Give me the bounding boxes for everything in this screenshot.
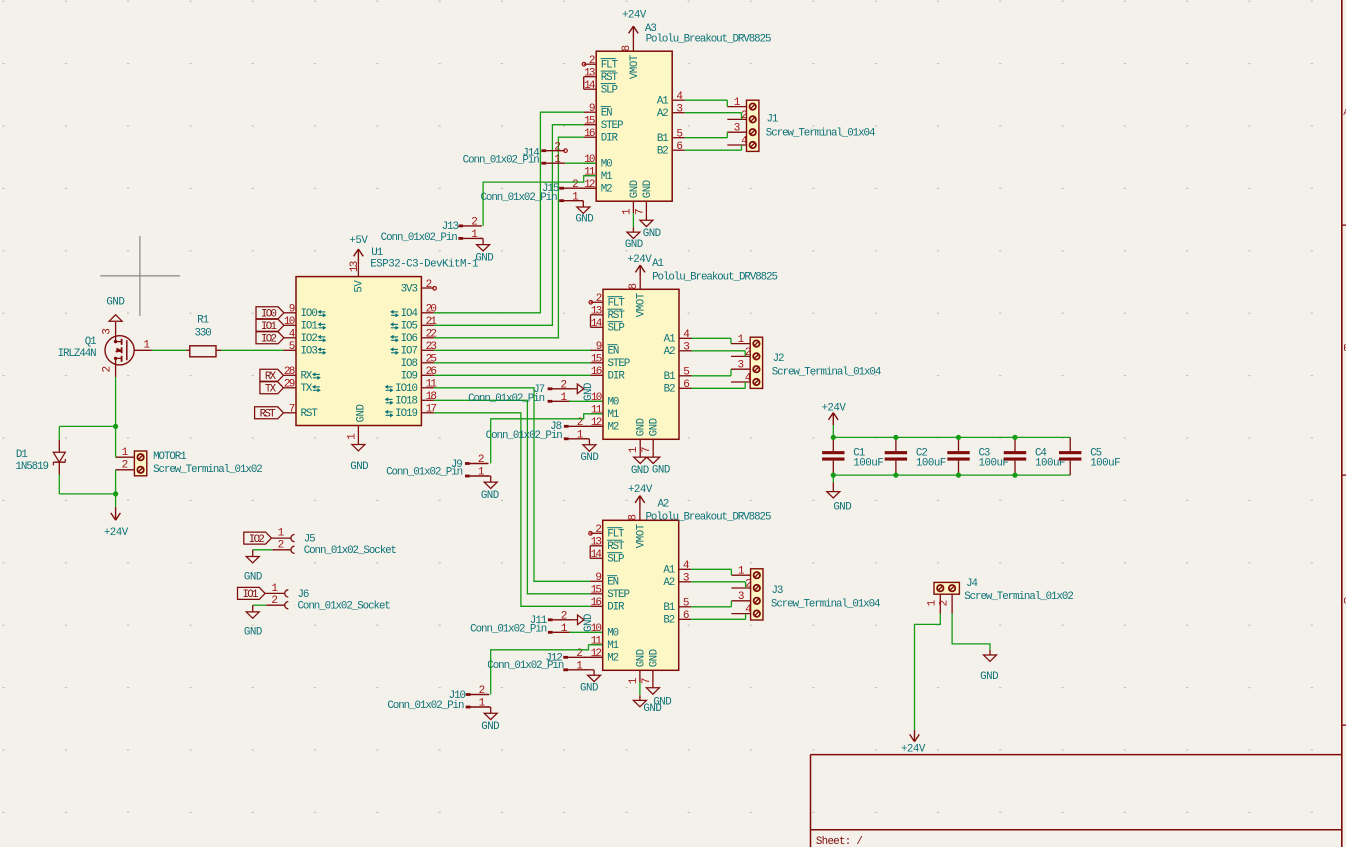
wire J12 pin2 to A2 M2 [585, 656, 603, 658]
svg-text:A1: A1 [657, 96, 668, 108]
junction [113, 491, 118, 496]
svg-text:IO3: IO3 [301, 346, 318, 358]
svg-text:23: 23 [426, 341, 437, 353]
ground (pin 7) [646, 682, 671, 708]
junction [1012, 435, 1017, 478]
connector J10 Conn_01x02_Pin [387, 685, 489, 712]
svg-text:12: 12 [591, 648, 602, 660]
svg-text:18: 18 [426, 391, 437, 403]
svg-text:M0: M0 [601, 159, 612, 171]
wire J15 pin2 to A3 M2 [581, 187, 597, 189]
svg-text:IO6: IO6 [401, 333, 418, 345]
svg-text:EN: EN [608, 346, 619, 358]
connector J8 Conn_01x02_Pin [486, 417, 588, 442]
svg-text:J4: J4 [966, 578, 977, 590]
ground (pin 7) [640, 213, 661, 240]
svg-text:+24V: +24V [821, 403, 846, 415]
svg-text:Conn_01x02_Pin: Conn_01x02_Pin [470, 624, 547, 636]
diode D1 1N5819 [15, 440, 65, 475]
svg-text:RST: RST [608, 310, 626, 322]
svg-text:Pololu_Breakout_DRV8825: Pololu_Breakout_DRV8825 [646, 511, 771, 523]
svg-text:+24V: +24V [622, 9, 647, 21]
junction [956, 435, 961, 478]
svg-text:12: 12 [584, 179, 595, 191]
svg-text:IO10: IO10 [395, 383, 417, 395]
svg-text:TX: TX [301, 383, 313, 395]
svg-text:IO7: IO7 [401, 346, 418, 358]
svg-text:IO18: IO18 [395, 396, 417, 408]
svg-text:M1: M1 [601, 171, 612, 183]
power +24V (cap bank) [821, 403, 846, 438]
svg-text:3V3: 3V3 [401, 283, 418, 295]
svg-text:100uF: 100uF [916, 457, 946, 469]
wire GND rail [833, 474, 1070, 476]
svg-text:100uF: 100uF [1090, 457, 1120, 469]
svg-text:R1: R1 [197, 314, 208, 326]
svg-text:29: 29 [284, 379, 295, 391]
svg-text:J6: J6 [298, 589, 309, 601]
ground (J5) [244, 550, 262, 584]
svg-text:13: 13 [591, 537, 602, 549]
wire B1 to J2 pin 3 [692, 369, 732, 376]
svg-text:B2: B2 [664, 384, 675, 396]
svg-text:M0: M0 [608, 397, 619, 409]
svg-text:M1: M1 [608, 409, 619, 421]
connector J13 Conn_01x02_Pin [381, 217, 482, 245]
ground (J12) [580, 670, 601, 695]
svg-text:GND: GND [833, 501, 851, 513]
svg-text:5V: 5V [354, 280, 366, 293]
junction [893, 435, 898, 478]
wire MOTOR1 pin2 to +24V node [115, 470, 117, 494]
svg-text:SLP: SLP [608, 323, 625, 335]
connector J9 Conn_01x02_Pin [386, 454, 488, 479]
wire J6 pin2 to GND [253, 604, 266, 606]
net label RX [260, 369, 284, 383]
svg-text:Conn_01x02_Pin: Conn_01x02_Pin [387, 700, 464, 712]
svg-text:GND: GND [653, 696, 671, 708]
no-connect (J14 pin2) [564, 149, 568, 153]
net label IO0 [256, 307, 284, 321]
power +5V (U1) [349, 235, 368, 264]
svg-text:A2: A2 [664, 346, 675, 358]
svg-text:15: 15 [591, 585, 602, 597]
power +24V (motor) [104, 507, 129, 539]
wire J10 pin2 to A2 M1 [491, 645, 603, 695]
svg-text:U1: U1 [371, 247, 382, 259]
stepper driver module A1 Pololu_Breakout_DRV8825 [589, 258, 778, 453]
wire B2 to J1 pin 4 [685, 145, 742, 150]
svg-text:17: 17 [426, 404, 437, 416]
svg-text:RST: RST [301, 408, 319, 420]
connector J14 Conn_01x02_Pin [463, 141, 565, 166]
svg-text:A2: A2 [663, 577, 674, 589]
svg-text:16: 16 [591, 597, 602, 609]
svg-text:Screw_Terminal_01x02: Screw_Terminal_01x02 [964, 591, 1073, 603]
svg-text:GND: GND [481, 490, 499, 502]
svg-text:A2: A2 [657, 108, 668, 120]
power +24V (A1 VMOT) [627, 254, 652, 277]
ground (J11 pin2) [569, 614, 595, 632]
svg-text:SLP: SLP [601, 85, 618, 97]
wire node to MOTOR1 pin1 [115, 426, 117, 457]
ground (J4) [980, 650, 998, 683]
wire +24V rail [833, 436, 1070, 438]
capacitor C4 100uF [1004, 437, 1065, 475]
ic U1 ESP32-C3-DevKitM-1 [284, 247, 478, 440]
svg-text:Conn_01x02_Pin: Conn_01x02_Pin [487, 660, 564, 672]
svg-text:GND: GND [980, 671, 998, 683]
svg-text:Conn_01x02_Pin: Conn_01x02_Pin [463, 155, 540, 167]
wire node to +24V [115, 494, 117, 507]
svg-text:Sheet: /: Sheet: / [816, 836, 862, 847]
ground (J8) [580, 439, 598, 464]
svg-text:26: 26 [426, 366, 437, 378]
wire Q1 gate to R1 [152, 349, 186, 351]
svg-text:ESP32-C3-DevKitM-1: ESP32-C3-DevKitM-1 [370, 258, 478, 270]
svg-text:A1: A1 [663, 565, 674, 577]
svg-text:FLT: FLT [607, 529, 625, 541]
svg-text:IO0: IO0 [301, 308, 318, 320]
svg-text:GND: GND [580, 683, 598, 695]
svg-text:GND: GND [642, 180, 654, 198]
capacitor C3 100uF [947, 437, 1008, 475]
svg-text:15: 15 [584, 116, 595, 128]
svg-text:IO8: IO8 [401, 358, 418, 370]
svg-text:EN: EN [601, 108, 612, 120]
svg-text:GND: GND [636, 418, 648, 436]
wire B2 to J2 pin 4 [692, 382, 746, 388]
svg-text:20: 20 [426, 304, 437, 316]
svg-text:GND: GND [643, 228, 661, 240]
ground (J9) [481, 476, 499, 502]
svg-text:Conn_01x02_Pin: Conn_01x02_Pin [468, 393, 545, 405]
svg-text:A1: A1 [664, 334, 675, 346]
svg-text:VMOT: VMOT [629, 54, 641, 79]
svg-text:GND: GND [355, 405, 367, 423]
svg-text:Conn_01x02_Pin: Conn_01x02_Pin [381, 232, 458, 244]
svg-text:IO2: IO2 [261, 334, 277, 346]
svg-text:GND: GND [583, 614, 595, 632]
ground (Q1 drain) [106, 297, 124, 322]
svg-text:GND: GND [106, 297, 124, 309]
svg-text:GND: GND [475, 253, 493, 265]
svg-text:VMOT: VMOT [636, 292, 648, 317]
connector J1 Screw_Terminal_01x04 [727, 97, 875, 151]
svg-text:B1: B1 [663, 602, 674, 614]
svg-text:10: 10 [284, 316, 295, 328]
ground (J10) [481, 707, 499, 733]
svg-text:Conn_01x02_Pin: Conn_01x02_Pin [486, 430, 563, 442]
wire B1 to J1 pin 3 [685, 132, 728, 138]
svg-text:FLT: FLT [608, 298, 626, 310]
svg-text:IO2: IO2 [301, 333, 318, 345]
ground (pin 1) [631, 451, 649, 477]
wire B2 to J3 pin 4 [691, 614, 745, 620]
svg-text:A2: A2 [658, 499, 669, 511]
svg-text:IO4: IO4 [401, 308, 418, 320]
ground (J13) [475, 238, 493, 264]
svg-text:MOTOR1: MOTOR1 [153, 451, 186, 463]
power +24V (A2 VMOT) [628, 484, 653, 508]
svg-text:A1: A1 [652, 258, 663, 270]
wire IO6 to A3 DIR [434, 137, 584, 338]
wire A2 to J1 pin 2 [685, 113, 742, 120]
svg-text:+24V: +24V [104, 527, 129, 539]
svg-text:GND: GND [244, 571, 262, 583]
svg-text:J2: J2 [773, 353, 784, 365]
wire A1 to J2 pin 1 [692, 338, 732, 343]
net label IO2 [256, 332, 284, 346]
net label RST [255, 407, 284, 421]
connector J11 Conn_01x02_Pin [470, 610, 571, 635]
svg-text:1N5819: 1N5819 [15, 461, 48, 473]
ground (J15) [575, 201, 593, 226]
wire R1 to IO3 [221, 349, 284, 351]
svg-text:IO2: IO2 [249, 534, 265, 546]
svg-text:J5: J5 [304, 534, 315, 546]
svg-text:D1: D1 [16, 449, 27, 461]
svg-text:GND: GND [649, 418, 661, 436]
svg-text:Q1: Q1 [85, 336, 96, 348]
wire IO18 to A2 STEP [434, 400, 590, 594]
svg-text:STEP: STEP [607, 589, 629, 601]
wire A1 to J1 pin 1 [685, 100, 728, 106]
svg-text:DIR: DIR [608, 371, 626, 383]
ground (pin 1) [625, 213, 643, 251]
svg-text:GND: GND [631, 465, 649, 477]
junction [113, 424, 118, 429]
connector MOTOR1 Screw_Terminal_01x02 [116, 447, 263, 476]
svg-text:16: 16 [591, 366, 602, 378]
connector J3 Screw_Terminal_01x04 [731, 566, 880, 620]
svg-text:Conn_01x02_Socket: Conn_01x02_Socket [298, 601, 391, 613]
connector J4 Screw_Terminal_01x02 [927, 578, 1074, 614]
svg-text:+24V: +24V [627, 254, 652, 266]
wire J8 pin2 to A1 M2 [585, 425, 603, 427]
svg-text:M1: M1 [607, 640, 618, 652]
svg-text:GND: GND [481, 721, 499, 733]
svg-text:GND: GND [580, 452, 598, 464]
wire J14 pin1 to A3 M0 [565, 162, 596, 164]
svg-text:EN: EN [607, 577, 618, 589]
wire J4 pin2 to GND [952, 614, 990, 651]
wire IO9 to A1 DIR [434, 374, 591, 376]
wire IO4 to A3 EN [434, 112, 584, 313]
svg-text:GND: GND [350, 461, 368, 473]
svg-text:25: 25 [426, 354, 437, 366]
wire IO19 to A2 DIR [434, 413, 590, 607]
svg-text:GND: GND [648, 649, 660, 667]
svg-text:SLP: SLP [607, 554, 624, 566]
wire IO5 to A3 STEP [434, 125, 584, 326]
svg-text:GND: GND [635, 649, 647, 667]
svg-text:GND: GND [583, 383, 595, 401]
svg-text:RST: RST [260, 409, 277, 421]
svg-text:+24V: +24V [901, 743, 926, 755]
svg-text:13: 13 [591, 306, 602, 318]
svg-text:IO1: IO1 [301, 321, 318, 333]
svg-text:J1: J1 [767, 114, 778, 126]
svg-text:GND: GND [575, 214, 593, 226]
stepper driver module A2 Pololu_Breakout_DRV8825 [589, 499, 771, 685]
svg-text:28: 28 [284, 366, 295, 378]
svg-text:GND: GND [625, 239, 643, 251]
resistor R1 330 [186, 314, 221, 357]
svg-text:RX: RX [301, 371, 313, 383]
svg-text:J3: J3 [772, 585, 783, 597]
junction [831, 435, 836, 478]
ground (J6) [244, 605, 262, 639]
ground (cap bank) [827, 475, 851, 513]
net label TX [260, 382, 284, 396]
connector J7 Conn_01x02_Pin [468, 379, 571, 405]
svg-text:15: 15 [591, 354, 602, 366]
wire A1 to J3 pin 1 [691, 569, 731, 575]
transistor Q1 IRLZ44N [58, 322, 152, 377]
svg-text:100uF: 100uF [853, 457, 883, 469]
wire J7 pin1 to A1 M0 [569, 400, 602, 402]
svg-text:IO19: IO19 [395, 408, 417, 420]
capacitor C1 100uF [822, 437, 883, 475]
capacitor C2 100uF [885, 437, 946, 475]
wire J13 pin2 to A3 M1 [483, 176, 596, 226]
svg-text:10: 10 [584, 154, 595, 166]
connector J15 Conn_01x02_Pin [480, 179, 582, 204]
svg-text:RST: RST [601, 72, 619, 84]
svg-text:B1: B1 [664, 371, 675, 383]
wire D1 bottom to node [59, 475, 115, 494]
connector J5 Conn_01x02_Socket [271, 528, 396, 558]
wire node to D1 top [59, 426, 115, 439]
stepper driver module A3 Pololu_Breakout_DRV8825 [582, 23, 771, 215]
capacitor C5 100uF [1059, 437, 1120, 475]
svg-text:M2: M2 [601, 184, 612, 196]
net label IO2 [244, 532, 272, 546]
svg-text:Pololu_Breakout_DRV8825: Pololu_Breakout_DRV8825 [652, 272, 777, 284]
svg-text:Screw_Terminal_01x04: Screw_Terminal_01x04 [772, 367, 881, 379]
svg-text:Screw_Terminal_01x04: Screw_Terminal_01x04 [766, 127, 875, 139]
power +24V (A3 VMOT) [622, 9, 647, 38]
connector J12 Conn_01x02_Pin [487, 648, 587, 673]
svg-text:+24V: +24V [628, 484, 653, 496]
svg-text:DIR: DIR [607, 602, 625, 614]
svg-text:Screw_Terminal_01x04: Screw_Terminal_01x04 [771, 599, 880, 611]
svg-text:GND: GND [629, 180, 641, 198]
svg-text:B1: B1 [657, 133, 668, 145]
wire IO8 to A1 STEP [434, 362, 591, 364]
svg-text:13: 13 [584, 68, 595, 80]
svg-text:Conn_01x02_Pin: Conn_01x02_Pin [480, 192, 557, 204]
svg-text:IRLZ44N: IRLZ44N [58, 348, 97, 360]
ground (J7 pin2) [569, 383, 595, 401]
wire J5 pin2 to GND [253, 549, 273, 551]
svg-text:330: 330 [194, 328, 211, 340]
wire IO10 to A2 EN [434, 388, 590, 582]
svg-text:GND: GND [244, 627, 262, 639]
svg-text:Screw_Terminal_01x02: Screw_Terminal_01x02 [153, 464, 262, 476]
wire B1 to J3 pin 3 [691, 601, 731, 607]
power +24V (J4) [901, 730, 926, 755]
svg-text:IO5: IO5 [401, 321, 418, 333]
wire J11 pin1 to A2 M0 [569, 631, 602, 633]
net label IO1 [256, 319, 284, 333]
svg-text:22: 22 [426, 329, 437, 341]
svg-text:RST: RST [607, 541, 625, 553]
connector J2 Screw_Terminal_01x04 [731, 334, 881, 388]
svg-text:STEP: STEP [601, 120, 623, 132]
svg-text:13: 13 [349, 261, 361, 272]
wire J4 pin1 to +24V [915, 614, 941, 731]
svg-text:GND: GND [652, 465, 670, 477]
svg-text:VMOT: VMOT [635, 523, 647, 548]
svg-text:+5V: +5V [349, 235, 368, 247]
svg-text:IO9: IO9 [401, 371, 418, 383]
svg-text:B2: B2 [663, 615, 674, 627]
svg-text:STEP: STEP [608, 358, 630, 370]
svg-text:IO1: IO1 [243, 589, 259, 601]
no-connect (3V3) [433, 287, 437, 291]
ground (pin 1) [633, 682, 661, 715]
wire A2 to J3 pin 2 [691, 582, 745, 588]
svg-text:DIR: DIR [601, 133, 619, 145]
wire Q1 source down [115, 377, 117, 427]
svg-text:M2: M2 [607, 653, 618, 665]
svg-text:FLT: FLT [601, 60, 619, 72]
svg-text:B2: B2 [657, 146, 668, 158]
ground (pin 7) [647, 451, 670, 476]
svg-text:Conn_01x02_Pin: Conn_01x02_Pin [386, 466, 463, 478]
ground (U1) [350, 438, 368, 473]
wire IO7 to A1 EN [434, 349, 591, 351]
svg-text:M0: M0 [607, 628, 618, 640]
svg-text:Pololu_Breakout_DRV8825: Pololu_Breakout_DRV8825 [646, 34, 771, 46]
net label IO1 [238, 587, 266, 601]
svg-text:16: 16 [584, 128, 595, 140]
wire A2 to J2 pin 2 [692, 351, 746, 357]
wire J9 pin2 to A1 M1 [491, 414, 603, 464]
connector J6 Conn_01x02_Socket [265, 583, 390, 613]
svg-text:Conn_01x02_Socket: Conn_01x02_Socket [304, 545, 397, 557]
svg-text:M2: M2 [608, 422, 619, 434]
svg-text:12: 12 [591, 417, 602, 429]
